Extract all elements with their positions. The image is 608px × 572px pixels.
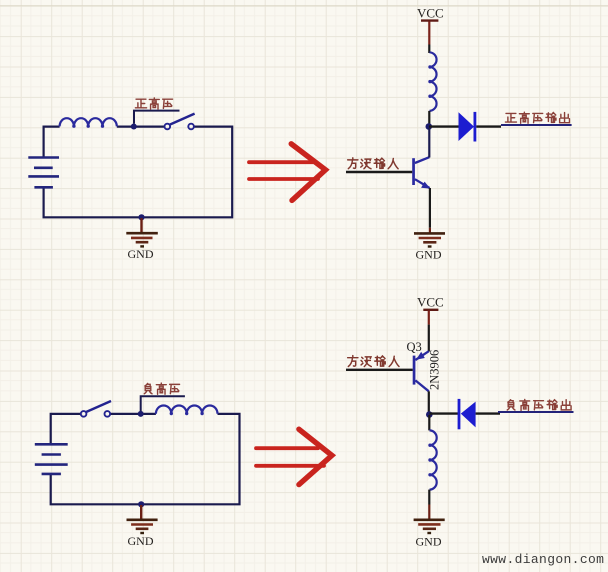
wire output — [476, 412, 500, 414]
wire emitter — [429, 188, 431, 228]
inductor L4 — [428, 430, 436, 489]
wire output — [476, 125, 501, 127]
svg-text:VCC: VCC — [417, 294, 444, 309]
ground GND top-left — [126, 218, 158, 246]
transistor Q1 NPN — [412, 157, 430, 188]
diode D1 — [459, 112, 477, 142]
svg-text:2N3906: 2N3906 — [428, 350, 442, 390]
svg-text:www.diangon.com: www.diangon.com — [482, 552, 604, 567]
net label 负高压输出 — [507, 399, 571, 410]
arrow big red bottom — [256, 429, 332, 484]
node label stub 正高压 — [134, 111, 180, 124]
arrow big red top — [249, 144, 326, 201]
svg-text:GND: GND — [416, 535, 442, 549]
junction dot — [426, 411, 433, 418]
net label 方波输入 — [348, 158, 398, 169]
ground GND top-right — [414, 233, 445, 246]
net label 正高压 — [135, 98, 172, 109]
svg-text:GND: GND — [128, 247, 154, 261]
svg-text:GND: GND — [128, 534, 154, 548]
svg-text:VCC: VCC — [417, 6, 444, 21]
wire collector — [428, 128, 430, 158]
transistor Q3 PNP — [413, 351, 429, 391]
wire to diode — [430, 412, 459, 414]
battery B1 — [28, 158, 59, 188]
junction dot — [138, 411, 144, 417]
wire VCC — [428, 311, 430, 325]
ground GND bottom-left — [127, 505, 158, 533]
net label underline — [498, 411, 574, 413]
wire VCC — [428, 21, 430, 44]
net label underline — [501, 124, 572, 126]
wire to diode — [429, 125, 459, 127]
svg-text:Q3: Q3 — [407, 340, 422, 354]
wire base — [346, 171, 412, 173]
svg-text:GND: GND — [416, 248, 442, 262]
junction dot ground — [138, 214, 144, 220]
switch S2 — [81, 401, 111, 417]
wire to inductor — [428, 415, 430, 430]
switch S1 — [165, 114, 195, 130]
inductor L2 — [428, 52, 436, 111]
net label 负高压 — [144, 383, 179, 394]
wire top-left loop — [44, 127, 233, 218]
battery B2 — [35, 444, 68, 474]
junction dot ground — [138, 501, 144, 507]
diode D2 — [458, 399, 476, 429]
inductor L3 — [156, 406, 218, 416]
wire collector — [428, 391, 430, 413]
net label 正高压输出 — [505, 112, 569, 123]
ground GND bottom-right — [414, 520, 445, 533]
net label 方波输入 — [348, 356, 399, 367]
wire base — [346, 369, 413, 371]
node label stub 负高压 — [141, 396, 185, 412]
junction dot — [131, 124, 137, 130]
inductor L1 — [60, 118, 117, 128]
wire bottom-left loop — [51, 414, 240, 504]
wire — [428, 111, 430, 126]
junction dot collector node — [426, 123, 433, 130]
wire to ground — [428, 490, 430, 505]
